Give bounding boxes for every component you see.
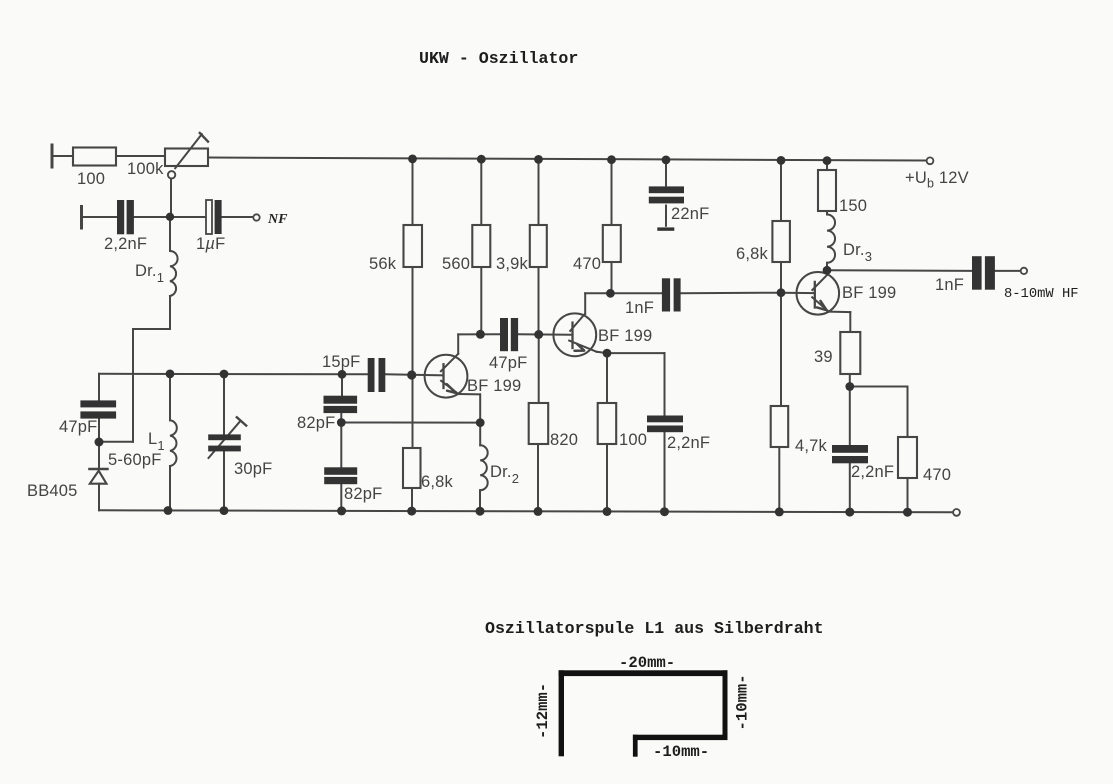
svg-text:82pF: 82pF [344, 485, 382, 503]
svg-text:15pF: 15pF [322, 353, 360, 371]
svg-text:UKW - Oszillator: UKW - Oszillator [419, 49, 578, 68]
svg-text:1nF: 1nF [935, 276, 964, 294]
svg-text:Dr.1: Dr.1 [135, 262, 164, 285]
svg-text:820: 820 [550, 431, 578, 449]
svg-text:BF 199: BF 199 [598, 327, 652, 345]
svg-text:2,2nF: 2,2nF [667, 434, 710, 452]
svg-text:47pF: 47pF [489, 354, 527, 372]
svg-text:NF: NF [267, 212, 288, 227]
svg-text:-12mm-: -12mm- [534, 683, 552, 739]
svg-text:39: 39 [814, 348, 833, 366]
svg-text:6,8k: 6,8k [421, 473, 454, 491]
svg-text:-10mm-: -10mm- [653, 743, 709, 761]
svg-text:5-60pF: 5-60pF [108, 451, 161, 469]
svg-text:30pF: 30pF [234, 460, 272, 478]
svg-text:1nF: 1nF [625, 299, 654, 317]
svg-text:2,2nF: 2,2nF [851, 463, 894, 481]
svg-text:-10mm-: -10mm- [734, 674, 752, 730]
svg-text:L1: L1 [148, 430, 165, 453]
svg-text:56k: 56k [369, 255, 397, 273]
svg-text:4,7k: 4,7k [795, 437, 828, 455]
svg-text:100k: 100k [127, 160, 164, 178]
svg-text:BF 199: BF 199 [842, 284, 896, 302]
svg-text:560: 560 [442, 255, 470, 273]
svg-text:8-10mW HF: 8-10mW HF [1004, 287, 1079, 302]
svg-text:Dr.3: Dr.3 [843, 241, 872, 264]
svg-text:2,2nF: 2,2nF [104, 235, 147, 253]
svg-text:100: 100 [619, 431, 647, 449]
svg-text:3,9k: 3,9k [496, 255, 529, 273]
svg-text:470: 470 [923, 466, 951, 484]
svg-text:470: 470 [573, 255, 601, 273]
svg-text:BB405: BB405 [27, 482, 78, 500]
svg-text:+Ub 12V: +Ub 12V [905, 169, 969, 191]
svg-text:6,8k: 6,8k [736, 245, 769, 263]
svg-text:Dr.2: Dr.2 [490, 463, 519, 486]
svg-text:Oszillatorspule L1 aus Silberd: Oszillatorspule L1 aus Silberdraht [485, 619, 824, 638]
svg-text:-20mm-: -20mm- [619, 654, 675, 672]
svg-text:1µF: 1µF [196, 235, 225, 253]
svg-text:47pF: 47pF [59, 418, 97, 436]
svg-text:BF 199: BF 199 [467, 377, 521, 395]
svg-text:100: 100 [77, 170, 105, 188]
svg-text:150: 150 [839, 197, 867, 215]
svg-text:82pF: 82pF [297, 414, 335, 432]
svg-text:22nF: 22nF [671, 205, 709, 223]
